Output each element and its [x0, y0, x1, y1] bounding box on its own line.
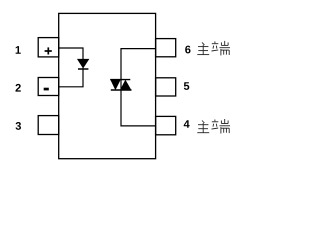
wire LED cathode to pin2	[59, 68, 83, 87]
LED D1 (emitter diode, anode top / cathode bottom)	[78, 59, 89, 69]
pin number 3	[16, 122, 21, 130]
photo-triac Q1	[110, 79, 131, 90]
IC body U1 (6-pin optocoupler package outline)	[59, 13, 156, 158]
端	[214, 41, 216, 43]
wire triac MT1 to pin4	[121, 125, 156, 127]
wire pin1 to LED anode	[59, 48, 83, 59]
主	[202, 121, 204, 124]
pin 4 pad	[156, 116, 176, 134]
label 主端 main-terminal (pin 4 row)	[197, 119, 230, 134]
pin 5 pad	[156, 78, 176, 96]
pin 6 pad	[156, 39, 176, 57]
pin number 4	[184, 120, 190, 128]
plus polarity mark in pin 1 pad	[45, 47, 52, 54]
pin 3 pad	[38, 116, 59, 135]
主	[202, 42, 204, 45]
wire pin6 to triac MT2 (main branch, runs through symbol)	[121, 49, 156, 127]
pin 2 pad	[38, 78, 59, 96]
pin number 5	[184, 82, 189, 90]
pin number 1	[16, 46, 21, 54]
label 主端 main-terminal (pin 6 row)	[197, 41, 230, 56]
pin 1 pad	[38, 38, 59, 57]
端	[214, 120, 216, 122]
minus polarity mark in pin 2 pad	[44, 88, 49, 91]
pin number 6	[185, 46, 190, 54]
pin number 2	[16, 84, 21, 92]
